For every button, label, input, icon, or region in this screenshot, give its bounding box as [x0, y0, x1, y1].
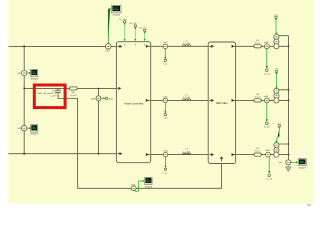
svg-text:R_l=1: R_l=1	[255, 96, 261, 99]
ground symbol	[287, 165, 289, 167]
load RLC branch C (stacked circles)	[274, 143, 279, 148]
svg-text:RL_Vb_I: RL_Vb_I	[130, 22, 138, 25]
goto tag I_Lb	[164, 113, 166, 115]
wire green Am1 to Scope6	[108, 9, 110, 43]
junction node (24,46)	[23, 45, 25, 47]
svg-text:Scope7: Scope7	[298, 166, 306, 169]
voltmeter V_n at right bus bottom	[286, 160, 291, 165]
wire green V_n to Scope7	[291, 161, 296, 163]
svg-text:VL_ce: VL_ce	[266, 177, 273, 180]
svg-text:Vbus: Vbus	[109, 97, 114, 100]
svg-text:1.1_mH: 1.1_mH	[183, 150, 191, 153]
PS output port B arrow	[146, 99, 150, 101]
wire: right neutral bus	[288, 36, 290, 165]
red highlight box around capacitor	[34, 85, 65, 108]
resistor R5 row C	[254, 153, 261, 156]
svg-text:g: g	[135, 43, 136, 46]
goto tag I_Lc	[164, 168, 166, 170]
PS port 1 left arrow	[117, 45, 121, 47]
junction node right bus row C	[288, 154, 290, 156]
wire green add1 to tag	[266, 49, 268, 67]
wire: load branch B top loop	[276, 89, 288, 91]
ammeter Am2 row A	[163, 44, 168, 49]
voltmeter Vdd1 (DC link)	[96, 96, 101, 101]
svg-text:I_Lc: I_Lc	[163, 171, 167, 174]
EMI port 3 left arrow	[209, 154, 213, 156]
svg-text:g: g	[124, 43, 125, 46]
wire: top DC bus	[9, 45, 117, 47]
svg-text:RL/: RL/	[307, 204, 311, 207]
ammeter Am4 row C	[163, 152, 168, 157]
scope Scope3	[145, 177, 153, 188]
EMI port 1 left arrow	[209, 45, 213, 47]
junction node right bus row A	[288, 45, 290, 47]
svg-text:VL_ae: VL_ae	[264, 72, 271, 75]
inductor L1	[183, 45, 191, 47]
junction node (98,154)	[98, 153, 100, 155]
goto tag VL_ae	[266, 69, 269, 72]
wire green tag to branch C	[277, 129, 280, 143]
ammeter add3 row C	[266, 152, 271, 157]
wire: bottom DC bus	[9, 153, 117, 155]
resistor R3 row A	[254, 45, 261, 48]
wire green Am4 to tag	[165, 157, 167, 167]
wire: capacitor branch to bottom return	[58, 92, 77, 188]
wire gate 1 green	[124, 25, 126, 40]
EMI bottom port arrow	[221, 157, 223, 162]
svg-text:g: g	[144, 43, 145, 46]
EMI port 2 left arrow	[209, 99, 213, 101]
junction node right bus branch C top	[288, 143, 290, 145]
capacitor C16	[55, 88, 61, 92]
PS output port C arrow	[146, 154, 150, 156]
EMI right port C arrow	[232, 154, 235, 156]
svg-text:Power Switches: Power Switches	[124, 102, 144, 105]
svg-text:R_lo=3: R_lo=3	[70, 94, 77, 97]
PS gate port marks	[124, 43, 145, 46]
wire green Am2 to tag	[164, 49, 166, 59]
svg-text:Scope5: Scope5	[30, 77, 38, 80]
junction node right bus branch B top	[288, 89, 290, 91]
wire gate 3 green	[144, 33, 146, 39]
wire green add3 to tag	[268, 157, 270, 172]
wire green Am5 to Scope3	[135, 181, 143, 192]
wire: mid DC wire to Power Switches	[24, 87, 116, 89]
wire: load branch A top loop	[276, 35, 288, 37]
ammeter Am5 on bottom return	[131, 186, 136, 191]
svg-text:VL_be: VL_be	[264, 126, 271, 129]
svg-text:RL_Vc_I: RL_Vc_I	[139, 26, 147, 29]
wire green Vd1 to Scope5	[27, 72, 29, 74]
wire: load row C	[236, 154, 289, 156]
ammeter add2 row B	[264, 98, 269, 103]
PS output port A arrow	[146, 45, 150, 47]
svg-text:c_b=3: c_b=3	[50, 95, 57, 98]
voltmeter Vd2 on left bus	[22, 126, 27, 131]
capacitor C16 value label	[37, 89, 57, 97]
svg-text:1.1_mH: 1.1_mH	[183, 42, 191, 45]
EMI right port B arrow	[232, 99, 235, 101]
ammeter Am1 on top bus	[106, 44, 112, 50]
wire green add2 to tag	[266, 103, 268, 121]
junction node (24,154)	[23, 153, 25, 155]
svg-text:R_l=1: R_l=1	[255, 150, 261, 153]
load RLC branch B (stacked circles)	[274, 88, 279, 93]
svg-text:R_l=1: R_l=1	[255, 41, 261, 44]
EMI Filter subsystem box	[208, 42, 235, 164]
svg-text:1.1_mH: 1.1_mH	[183, 96, 191, 99]
wire green Am3 to tag	[164, 103, 166, 113]
svg-text:Vdd1: Vdd1	[91, 97, 97, 100]
ammeter Am3 row B	[163, 98, 168, 103]
wire green tag to branch A	[275, 20, 277, 34]
wire green Vd2 to Scope4	[27, 127, 29, 129]
scope Scope4	[30, 125, 38, 136]
wire: load row B	[236, 99, 289, 101]
wire: load branch C top loop	[276, 143, 288, 145]
junction node (98,89)	[98, 88, 100, 90]
EMI right port A arrow	[232, 45, 235, 47]
inductor L3	[183, 153, 191, 155]
wire: left DC bus vertical	[23, 46, 25, 153]
svg-text:EMI Filter: EMI Filter	[216, 102, 228, 105]
resistor Rc2 snubber block	[69, 87, 77, 90]
junction node right bus row B	[288, 100, 290, 102]
wire green tag to branch B	[276, 75, 278, 89]
wire: phase row C (PS to EMI)	[151, 154, 209, 156]
ammeter add1 row A	[264, 44, 269, 49]
wire gate 2 green	[134, 29, 136, 40]
load RLC branch A (stacked circles)	[274, 34, 279, 39]
svg-text:RL_Va_I: RL_Va_I	[119, 18, 127, 21]
svg-text:Scope4: Scope4	[30, 133, 38, 136]
wire: load row A	[236, 45, 289, 47]
wire: phase row A (PS to EMI)	[151, 45, 209, 47]
scope Scope6	[112, 5, 122, 16]
scope Scope7	[298, 159, 307, 170]
PS port 3 left arrow	[117, 153, 121, 155]
wire green Vdd1 to goto tag	[101, 97, 104, 99]
resistor R4 row B	[254, 99, 261, 102]
scope Scope5	[30, 69, 38, 80]
junction node (24,89)	[23, 88, 25, 90]
wire: DC link measurement vertical	[98, 88, 100, 153]
svg-text:Scope3: Scope3	[145, 186, 153, 189]
goto tag VL_ce	[268, 174, 271, 177]
wire: phase row B (PS to EMI)	[151, 99, 209, 101]
goto tag VL_be	[266, 122, 269, 125]
wire: bottom return to EMI filter	[78, 163, 222, 188]
svg-text:Scope6: Scope6	[113, 14, 121, 17]
voltmeter Vd1 on left bus	[22, 70, 27, 75]
goto tag Vbus	[105, 97, 108, 100]
svg-text:set: set	[279, 161, 282, 164]
PS port 2 left arrow	[117, 87, 120, 89]
Power Switches subsystem box	[116, 42, 150, 163]
goto tag I_La	[164, 59, 166, 61]
inductor L2	[183, 99, 191, 101]
